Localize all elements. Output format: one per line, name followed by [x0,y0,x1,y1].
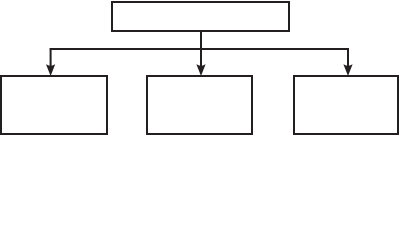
node top box [112,2,289,31]
arrowhead middle [196,64,205,76]
node bottom-left box [1,76,107,134]
arrowhead right [343,64,352,76]
wire right drop [347,48,349,66]
node bottom-middle box [147,76,252,134]
wire horizontal connector [50,48,349,50]
arrowhead left [46,64,55,76]
wire left drop [50,48,52,66]
wire stem from top box [200,31,202,66]
node bottom-right box [294,76,398,134]
